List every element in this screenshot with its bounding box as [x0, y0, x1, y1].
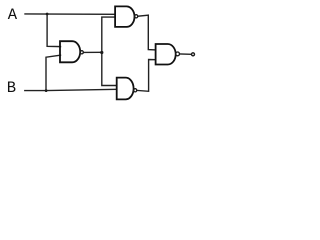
wire B rail to bottom NAND lower input [25, 89, 117, 90]
wire top NAND output down to output NAND upper input [138, 15, 156, 50]
wire feedback vertical with branches to top and bottom NAND inputs [102, 17, 117, 85]
wire middle NAND output to feedback node [83, 51, 101, 53]
wire B branch up to middle NAND lower input [46, 55, 61, 90]
wire A rail to top NAND input [25, 13, 115, 15]
G2 output bubble [135, 15, 138, 18]
output terminal circle [192, 53, 195, 56]
junction on feedback wire [100, 51, 103, 54]
wire bottom NAND output up to output NAND lower input [137, 60, 156, 92]
wire A branch down to middle NAND upper input [47, 14, 60, 47]
junction on A wire [46, 13, 49, 16]
svg-text:B: B [7, 79, 16, 97]
G1 output bubble [80, 51, 83, 54]
NAND gate G3 (bottom) body [117, 78, 134, 100]
NAND gate G2 (top) body [115, 6, 134, 27]
wire output NAND to terminal [180, 53, 191, 55]
NAND gate G4 (output) body [156, 44, 176, 65]
NAND gate G1 (middle) body [60, 41, 80, 62]
G3 output bubble [134, 89, 137, 92]
junction on B wire [45, 89, 48, 92]
G4 output bubble [176, 52, 180, 56]
svg-text:A: A [8, 6, 18, 24]
